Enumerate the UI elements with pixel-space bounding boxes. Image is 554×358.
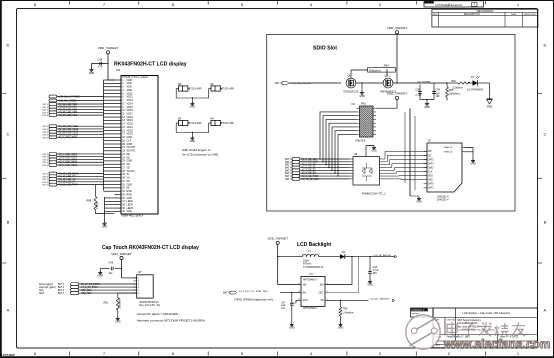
ground GND D7 [487, 99, 493, 109]
wire Q0 to Q7_1 [356, 82, 384, 84]
svg-text:ST101-45R: ST101-45R [221, 122, 234, 125]
svg-text:OUT 4: OUT 4 [42, 159, 49, 161]
svg-text:VDD_TARGET: VDD_TARGET [111, 252, 132, 256]
svg-text:CD: CD [428, 155, 432, 157]
svg-text:AP5724WG-7: AP5724WG-7 [303, 307, 318, 310]
svg-text:LCD display + Cap touch / SD C: LCD display + Cap touch / SD Card slot [462, 311, 510, 315]
svg-text:100kohms: 100kohms [449, 93, 461, 96]
watermark elecfans logo [406, 315, 440, 349]
node SD_POWER [417, 81, 448, 83]
svg-text:NX2301P,215: NX2301P,215 [344, 90, 359, 93]
wire J16 low pins to GND [105, 197, 115, 221]
svg-text:GND: GND [416, 200, 422, 203]
wire anode net [351, 256, 394, 257]
inductor L1 [302, 250, 340, 269]
node LCD_BL_CATHODE [49, 95, 104, 98]
node LCD_BL_ANODE [49, 99, 104, 102]
svg-text:GND: GND [89, 72, 95, 75]
svg-text:BAT 4: BAT 4 [285, 178, 292, 181]
svg-text:C54: C54 [436, 89, 441, 92]
svg-text:BAT 4: BAT 4 [58, 292, 65, 295]
svg-text:OUT 4: OUT 4 [42, 137, 49, 139]
svg-text:DWG NO: DWG NO [447, 320, 456, 322]
capacitor C54 [432, 89, 440, 99]
diode D4 [340, 251, 352, 259]
wire OUT loop [325, 257, 359, 293]
svg-text:B: B [7, 220, 10, 225]
svg-text:4.7u: 4.7u [98, 65, 103, 68]
svg-text:ST101-45R: ST101-45R [221, 88, 234, 91]
net flag group 2 [42, 125, 103, 140]
svg-text:2.4kohms: 2.4kohms [343, 312, 354, 315]
svg-text:I2C2_SDA: I2C2_SDA [81, 292, 92, 295]
svg-text:GND: GND [190, 105, 196, 108]
svg-text:OUT 4: OUT 4 [42, 182, 49, 184]
svg-text:nxp.com: nxp.com [412, 313, 420, 315]
resistor R66 [446, 81, 470, 90]
svg-text:0 ohm: 0 ohm [96, 202, 99, 209]
svg-text:A: A [544, 308, 547, 313]
svg-text:0.1uF: 0.1uF [416, 94, 423, 97]
wire C48 branch [92, 63, 108, 65]
svg-text:C49: C49 [109, 262, 114, 265]
SDIO Slot boundary box [267, 35, 515, 212]
net flag PWM control [223, 291, 301, 295]
title block [433, 308, 538, 348]
svg-text:10V: 10V [436, 95, 441, 98]
svg-text:OUT 4: OUT 4 [42, 165, 49, 167]
wire RN1 VDD [376, 101, 397, 108]
connector J9 SD card [424, 140, 466, 202]
svg-text:OUT: OUT [319, 292, 324, 294]
svg-text:OUT 4: OUT 4 [42, 154, 49, 156]
svg-text:GND: GND [127, 210, 133, 213]
net flag group 4 [42, 172, 103, 187]
svg-text:P3_4_BTL_CTL_PWM_TRIG: P3_4_BTL_CTL_PWM_TRIG [239, 291, 268, 293]
svg-text:BAT 4: BAT 4 [223, 292, 230, 295]
svg-text:GND: GND [424, 106, 430, 109]
svg-text:2.2Kohms: 2.2Kohms [453, 88, 464, 90]
wire VDD rail backlight [277, 246, 302, 285]
svg-text:OUT 4: OUT 4 [42, 104, 49, 106]
capacitor C46 [368, 257, 379, 280]
svg-text:GND: GND [367, 283, 373, 286]
svg-text:C: C [7, 132, 10, 137]
wire Q7 out to SD_POWER [393, 82, 417, 84]
ground GND U4 [291, 323, 293, 325]
ground GND shield row1 [191, 102, 193, 104]
sheet header box LPC546xx Eval brd [424, 1, 484, 7]
svg-text:100kohms: 100kohms [369, 69, 381, 72]
wire D7 to GND [489, 83, 491, 99]
ground GND shield row2 [191, 136, 193, 138]
net flag group 1 [42, 103, 103, 118]
wire FB to cathode flag [325, 300, 369, 301]
svg-text:RN1: RN1 [361, 103, 367, 106]
node LCD_BL_CATHODE flag [370, 298, 395, 302]
svg-text:GND: GND [359, 95, 365, 98]
LED D7 [467, 76, 490, 92]
svg-text:OUT 4: OUT 4 [42, 115, 49, 117]
wire SW loop [325, 257, 352, 285]
svg-text:OUT 4: OUT 4 [42, 107, 49, 109]
wire to GND [91, 64, 93, 68]
svg-text:C: C [544, 132, 547, 137]
svg-text:GND: GND [371, 149, 377, 152]
svg-text:GND: GND [115, 320, 121, 323]
svg-text:CLK: CLK [428, 171, 433, 173]
wire VDD to J17 [121, 261, 137, 278]
svg-text:GND: GND [102, 226, 108, 229]
wire fan RN1 to SD bus [319, 104, 356, 177]
svg-text:DAT3: DAT3 [428, 162, 434, 165]
wire R91 to GND [117, 310, 119, 317]
svg-text:CONTACT #: CONTACT # [412, 309, 426, 312]
svg-text:GPIO (PWM brightness ctrl): GPIO (PWM brightness ctrl) [234, 297, 272, 301]
svg-text:VIN: VIN [303, 284, 307, 286]
svg-text:R64: R64 [384, 64, 389, 67]
svg-text:BAT 4: BAT 4 [58, 289, 65, 292]
svg-text:VDD_TARGET: VDD_TARGET [267, 237, 288, 241]
resistor R98 [87, 185, 99, 210]
svg-text:APPROVED: APPROVED [524, 13, 536, 16]
net flag group SD signals [285, 158, 349, 181]
svg-text:GND: GND [190, 140, 196, 143]
capacitor C38 [416, 89, 423, 98]
revisions table [432, 9, 538, 27]
svg-text:EN: EN [303, 292, 307, 294]
svg-text:SHIELD2: SHIELD2 [444, 152, 454, 154]
net flag group 3 [42, 153, 103, 168]
wire U4 GND pin [296, 300, 301, 303]
resistor R91 [104, 297, 122, 310]
wire C49 to GND [99, 269, 101, 271]
svg-text:J17: J17 [138, 271, 143, 274]
svg-text:R98: R98 [87, 200, 92, 203]
svg-text:RK043FN02H-CT LCD display: RK043FN02H-CT LCD display [114, 62, 187, 68]
wire shield to GND [465, 148, 473, 159]
J16 pin stubs and numbers [115, 79, 136, 213]
svg-text:LCD_BL_ANODE: LCD_BL_ANODE [59, 99, 78, 102]
resistor R65 [446, 83, 461, 101]
svg-text:OUT 4: OUT 4 [42, 132, 49, 134]
svg-text:REV: REV [433, 14, 438, 16]
resistor R90 [339, 300, 354, 322]
ground GND shield [472, 159, 474, 161]
ground GND J17 [117, 317, 119, 319]
wire SD bus verticals [405, 108, 415, 196]
connector J17 [134, 271, 161, 307]
net flag group cap touch [39, 283, 137, 296]
wire VDD down to power switch [396, 36, 398, 70]
svg-text:OUT 4: OUT 4 [42, 174, 49, 176]
svg-text:OUT 4: OUT 4 [42, 112, 49, 114]
svg-text:BAT 4: BAT 4 [275, 82, 282, 85]
svg-text:SDA: SDA [39, 292, 44, 295]
svg-text:OUT 4: OUT 4 [42, 162, 49, 164]
wire VDD to Q7 drain [396, 70, 398, 83]
ground GND Q0 [361, 91, 363, 93]
resistor R64 [351, 64, 397, 78]
wire shield row2 [176, 123, 208, 133]
svg-text:ST101-45R: ST101-45R [189, 88, 202, 91]
svg-text:OUT 4: OUT 4 [42, 157, 49, 159]
resistor network RN1 [355, 103, 376, 143]
wire Q0 gate to GND [361, 83, 363, 91]
svg-text:FB: FB [321, 300, 324, 302]
svg-text:VDD_TARGET: VDD_TARGET [387, 26, 408, 30]
svg-text:3.3kohms: 3.3kohms [118, 297, 121, 309]
svg-text:SHIELD1: SHIELD1 [444, 147, 454, 149]
svg-text:www.elecfans.com: www.elecfans.com [443, 338, 551, 351]
svg-text:VDD_TARGET: VDD_TARGET [98, 46, 119, 50]
svg-text:tie LCD enclosure to GND.: tie LCD enclosure to GND. [183, 152, 220, 156]
svg-text:GND: GND [303, 300, 308, 302]
svg-text:GND: GND [289, 326, 295, 329]
contact box [411, 308, 434, 317]
svg-text:BAT 4: BAT 4 [58, 286, 65, 289]
capacitor C47 [281, 292, 293, 323]
watermark chinese characters dian zi fa shao you [447, 322, 525, 336]
svg-text:LCD Backlight: LCD Backlight [297, 242, 332, 248]
svg-text:DAT0: DAT0 [428, 183, 434, 186]
svg-text:AP5724WG-7: AP5724WG-7 [303, 279, 318, 282]
svg-text:NC: NC [352, 104, 356, 106]
ground GND J16 [104, 221, 106, 223]
svg-text:Cap Touch RK043FN02H-CT LCD di: Cap Touch RK043FN02H-CT LCD display [102, 245, 199, 251]
svg-text:LCD_BL_CATHODE: LCD_BL_CATHODE [370, 298, 391, 301]
wire R98 to GND net [96, 210, 105, 214]
svg-text:Actual I2C addrs = 0b0111000: Actual I2C addrs = 0b0111000 [137, 312, 179, 316]
net flag BAT FLASH_RSLN [275, 82, 341, 86]
svg-text:GND: GND [470, 162, 476, 165]
wire cap rail [420, 83, 434, 100]
ground GND C49 [99, 271, 101, 273]
ground GND C46 [369, 280, 371, 282]
svg-text:GND: GND [487, 106, 493, 109]
svg-text:LCD_BL_CATHODE: LCD_BL_CATHODE [59, 95, 80, 98]
IC U4 AP5724 [298, 273, 328, 310]
connector J16 FPC40 [116, 69, 158, 214]
ground GND caps [424, 99, 430, 109]
ground GND U8 top [373, 146, 375, 148]
svg-text:LS G976M/R-E: LS G976M/R-E [467, 89, 484, 92]
wire U8 top GND [366, 146, 374, 157]
svg-text:D: D [7, 43, 10, 48]
svg-text:OUT 4: OUT 4 [42, 129, 49, 131]
svg-text:Q7_1: Q7_1 [385, 74, 392, 77]
svg-text:VDD: VDD [428, 176, 433, 178]
svg-text:OUT 4: OUT 4 [42, 185, 49, 187]
svg-text:OUT 4: OUT 4 [42, 126, 49, 128]
svg-text:C48: C48 [98, 59, 103, 62]
svg-text:CMD: CMD [428, 167, 434, 169]
wire VDD bus join [108, 79, 115, 81]
svg-text:LPC546xx Eval brd: LPC546xx Eval brd [436, 3, 463, 7]
capacitor C49 [100, 262, 121, 275]
svg-text:DAT1: DAT1 [428, 187, 434, 190]
svg-text:OUT 4: OUT 4 [42, 135, 49, 137]
node LCD_BL_ANODE flag [374, 254, 397, 258]
svg-text:ST101-45R: ST101-45R [189, 122, 202, 125]
svg-text:P2_15_LCD_AC: P2_15_LCD_AC [59, 178, 76, 181]
svg-text:D: D [544, 43, 547, 48]
svg-text:VDD_TARGET: VDD_TARGET [387, 92, 408, 96]
wire J17 pin6 down [118, 293, 137, 297]
svg-text:7: 7 [473, 3, 475, 7]
svg-text:R91: R91 [104, 302, 109, 305]
svg-text:GND: GND [98, 274, 104, 277]
svg-text:SFV6R-3STE1HLF: SFV6R-3STE1HLF [139, 302, 159, 304]
svg-text:IP4856CX14/A-TTL_1: IP4856CX14/A-TTL_1 [362, 193, 386, 196]
svg-text:DAT2: DAT2 [428, 158, 434, 161]
svg-text:60904-4011 SEALF: 60904-4011 SEALF [122, 215, 144, 218]
wire VDD to J16 pin1 [107, 56, 109, 80]
ground GND C48 [91, 68, 93, 70]
wire U8 outputs to SD connector [383, 151, 427, 179]
svg-text:LCD_BL_ANODE: LCD_BL_ANODE [374, 254, 392, 257]
svg-text:OUT 4: OUT 4 [42, 176, 49, 178]
ground GND R90 [340, 323, 342, 325]
svg-text:C38: C38 [416, 89, 421, 92]
svg-text:DATE: DATE [511, 13, 517, 16]
svg-text:B: B [544, 220, 547, 225]
svg-text:R90: R90 [343, 308, 348, 311]
svg-text:Alternate connector MTCONN FPS: Alternate connector MTCONN FPS2ET1-06GR0… [137, 319, 205, 323]
svg-text:2041021-4: 2041021-4 [437, 199, 449, 202]
svg-text:WP: WP [428, 151, 432, 153]
svg-text:J16: J16 [116, 69, 121, 72]
wire bus left of J16 [104, 80, 115, 191]
svg-text:6pin, 3mm FPC, Top: 6pin, 3mm FPC, Top [139, 305, 161, 307]
svg-text:SDIO Slot: SDIO Slot [313, 45, 337, 51]
svg-text:GND: GND [338, 326, 344, 329]
wire shield row1 [176, 89, 208, 99]
svg-text:A: A [7, 308, 10, 313]
svg-text:25V: 25V [373, 272, 378, 275]
svg-text:BAT 4: BAT 4 [58, 283, 65, 286]
svg-text:TYS50402Z0M-10: TYS50402Z0M-10 [303, 266, 324, 269]
svg-text:LPC54608: LPC54608 [1, 353, 15, 357]
svg-text:OUT 4: OUT 4 [42, 110, 49, 112]
svg-text:OUT 4: OUT 4 [42, 179, 49, 181]
svg-text:DESCRIPTION: DESCRIPTION [464, 14, 480, 16]
ground GND SD bus [418, 197, 420, 199]
svg-text:VSS: VSS [428, 180, 433, 182]
svg-text:ATB210-8: ATB210-8 [355, 140, 366, 143]
ESD protector U8 [350, 153, 387, 196]
